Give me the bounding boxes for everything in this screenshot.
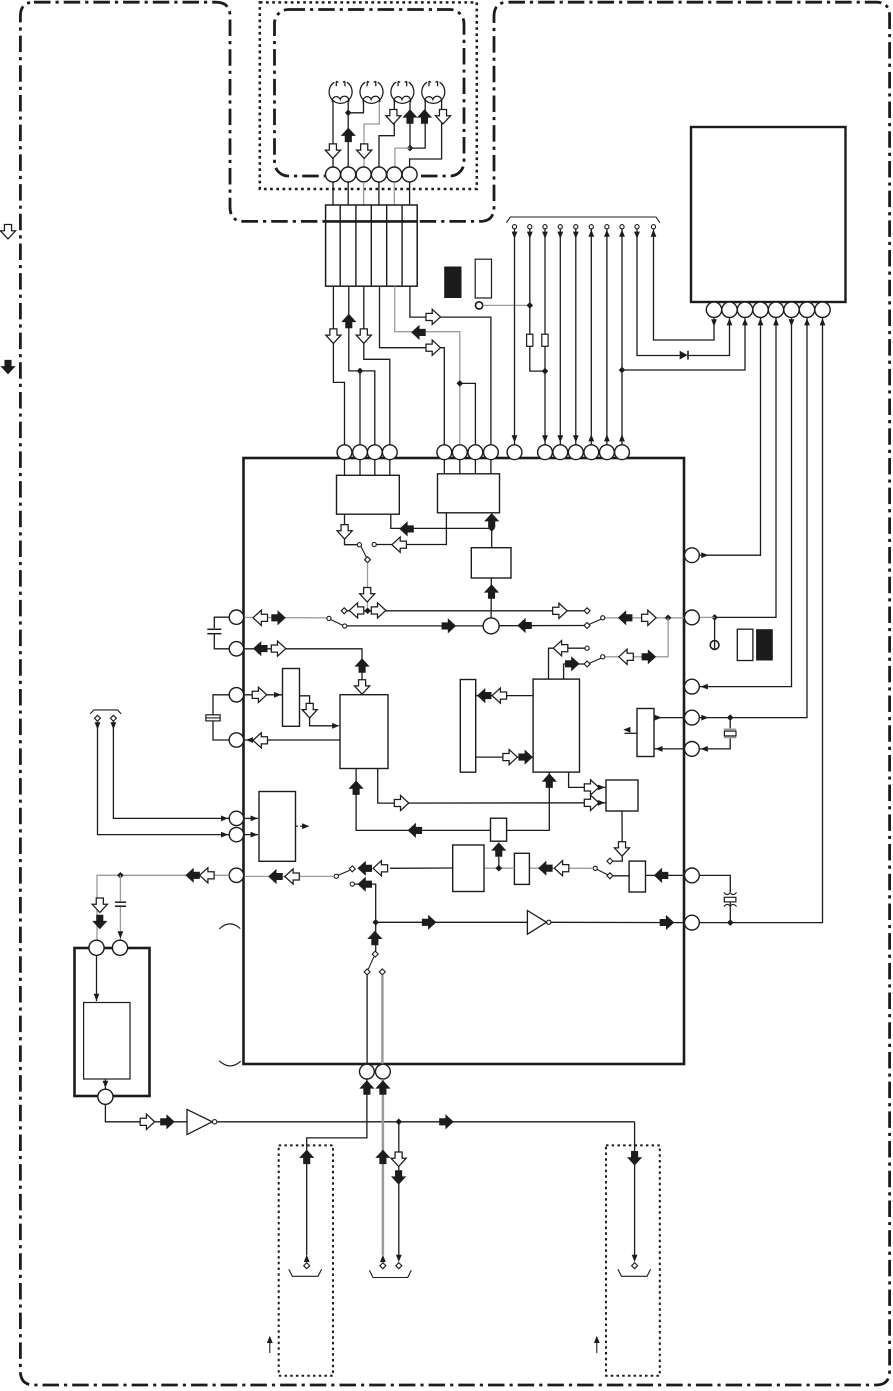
block PB-EQ amp <box>337 475 400 514</box>
arrow solid left into meter amp <box>654 868 669 883</box>
bus terminal 7 <box>605 225 609 229</box>
IC pin T4 <box>382 445 397 460</box>
arrow hollow left S4 row <box>619 649 634 664</box>
arrowhead down sensor a <box>95 722 101 729</box>
wire line row lower left <box>347 625 483 627</box>
pin U2-3 <box>737 302 752 317</box>
arrow record up on head3R wire <box>402 109 417 124</box>
arrow solid right tank lower <box>518 750 533 765</box>
block OSC tank <box>460 680 475 773</box>
system control block U2 <box>691 127 846 302</box>
wire S6b to line out node <box>354 884 375 922</box>
connector J1 divider 3 <box>370 205 372 286</box>
wire inner to bottom pin <box>104 1079 106 1089</box>
arrow hollow left pin L7 inside <box>285 869 300 884</box>
wire IC top pin to block REC-EQ <box>459 459 461 473</box>
arrowhead into level det <box>274 692 281 698</box>
arrow solid right to buffer <box>422 915 437 930</box>
arrow hollow left detector row <box>373 861 388 876</box>
arrowhead up bus 7 top <box>604 230 610 237</box>
arrow solid down solenoid 4 <box>627 1151 642 1166</box>
crystal X1 <box>724 729 736 739</box>
arrow hollow left pin L4 <box>253 733 267 748</box>
wire S5 pole to AGC <box>529 867 593 869</box>
arc mark upper <box>219 924 240 929</box>
arrowhead down into IC pin <box>557 435 563 442</box>
IC pin T12 <box>568 445 583 460</box>
arrow solid down motor wire <box>92 915 107 930</box>
arrow solid left S3 row <box>618 610 633 625</box>
IC pin L6 <box>229 827 243 841</box>
switch S1 lever <box>361 547 366 558</box>
arrowhead up from IC pin <box>604 434 610 441</box>
main IC U1 <box>244 458 685 1064</box>
sensor terminal b <box>110 715 116 721</box>
wire crystal to IC pin R5 <box>699 738 730 749</box>
arrow solid up below pin B1 <box>359 1080 374 1095</box>
IC pin R2 <box>685 610 700 625</box>
terminal solenoid 2 <box>380 1263 386 1269</box>
arrow solid left DolbyHF row <box>408 823 423 838</box>
wire capacitor C1 to pin L2 <box>214 635 229 649</box>
wire motor pin a to inner <box>96 956 98 1002</box>
wire pin L3 to capacitor C2 <box>213 695 229 715</box>
sensor bracket <box>90 710 121 714</box>
arrowhead up solenoid 2 <box>380 1255 386 1262</box>
wire IC pin L5 to control <box>245 817 259 819</box>
wire meter amp to IC pin R6 <box>646 874 685 876</box>
block level det <box>283 669 300 727</box>
arrow solid right pin L1 <box>271 610 286 625</box>
wire S7a to IC bottom pin B1 <box>366 975 368 1064</box>
wire bus 1 to IC <box>514 229 516 445</box>
switch S2 lever <box>331 620 343 626</box>
arrow record up on P2 wire <box>341 128 356 143</box>
arrowhead down into IC pin <box>542 435 548 442</box>
head block dash-dot boundary <box>275 10 465 177</box>
jack circle <box>710 641 719 650</box>
arrowhead into IC pin L4 <box>246 737 253 743</box>
junction motor cap <box>117 872 124 879</box>
arrow playback down monitor wire <box>360 588 375 603</box>
connector J1 divider 1 <box>339 205 341 286</box>
arrow hollow right meter row <box>394 795 409 810</box>
terminal row upper right <box>584 608 590 614</box>
wire tank to bias upper <box>476 695 533 697</box>
pin U2-2 <box>722 302 737 317</box>
arrowhead servo stub <box>623 727 630 733</box>
arrow hollow right row upper <box>553 603 568 618</box>
arrow solid left pin L7 inside <box>268 869 283 884</box>
arrow solid up into bias osc <box>542 773 557 788</box>
arrowhead small right <box>594 1336 600 1343</box>
arrowhead into pin L6 <box>221 832 228 838</box>
wire IC top pin to block PB-EQ <box>359 459 361 475</box>
capacitor C5 <box>724 892 737 906</box>
switch S7 lever <box>368 957 374 969</box>
arrow solid up summer to ALC <box>484 584 499 599</box>
arrowhead down solenoid 3 <box>396 1255 402 1262</box>
wire node to ALC block <box>491 528 493 547</box>
arrowhead into control a <box>251 816 258 822</box>
wire head3-L to pin P4 <box>379 101 394 168</box>
IC pin R4 <box>685 710 700 725</box>
IC pin R3 <box>685 679 700 694</box>
wire diode to U2 pin2 <box>688 318 730 355</box>
wire node to buffer <box>376 921 528 923</box>
arrowhead down inner <box>94 994 100 1001</box>
dashed control stub <box>296 825 306 827</box>
junction monitor row <box>364 608 371 615</box>
buffer amp triangle U1b <box>527 911 546 935</box>
arrow solid right S4b <box>565 656 580 671</box>
junction on bus line 2 <box>527 302 534 309</box>
resistor R1 <box>527 334 533 346</box>
wire capacitor C2 to pin L4 <box>213 721 229 740</box>
arrow solid left detector row <box>358 861 373 876</box>
arrowhead up U2 pin4 <box>758 318 764 325</box>
arrow hollow down left border <box>0 225 15 240</box>
wire node to HF filter <box>498 857 500 868</box>
connector block J1 <box>326 205 418 286</box>
bus terminal 5 <box>574 225 578 229</box>
motor pin b <box>112 940 127 955</box>
arrow solid left into summer <box>517 618 532 633</box>
motor bottom pin <box>98 1089 113 1104</box>
arrow left to switch S1b <box>392 537 407 552</box>
arrow solid left S6b <box>358 877 373 892</box>
wire branch to switch S4 <box>605 618 668 657</box>
bus terminal 6 <box>589 225 593 229</box>
bracket solenoid 4 <box>618 1269 651 1276</box>
arrowhead up U2 pin8 <box>820 318 826 325</box>
IC pin L7 <box>229 868 243 882</box>
junction R2 node <box>711 614 718 621</box>
arrow solid right buffer in <box>160 1114 175 1129</box>
head H3 <box>391 81 414 103</box>
wire lamp to bus line 2 <box>483 304 530 306</box>
arrow record up on head4L wire <box>417 109 432 124</box>
switch S4 contact a <box>585 646 589 650</box>
wire IC pin L3 to level det <box>245 694 283 696</box>
switch S5 contact b <box>607 873 613 879</box>
arrowhead down sensor b <box>111 722 117 729</box>
IC pin T6 <box>452 445 467 460</box>
junction head3R-head4L <box>407 145 414 152</box>
wire IC top pin to block REC-EQ <box>474 459 476 473</box>
terminal row upper left <box>341 608 347 614</box>
wire connector col3 to IC pin T4 <box>364 286 390 445</box>
arrow playback down PB-EQ out <box>337 525 352 540</box>
arrowhead into control b <box>251 832 258 838</box>
arrow solid down left border <box>0 360 15 375</box>
wire level det to MPX <box>300 696 339 726</box>
capacitor C2 <box>206 715 220 721</box>
block MPX filter <box>340 695 388 769</box>
wire MPX to DolbyHF row <box>356 769 490 831</box>
switch S3 pole <box>601 616 605 620</box>
arc mark lower <box>219 1061 241 1066</box>
arrow solid up into HF filter <box>491 842 506 857</box>
wire bus 3 upper <box>544 229 546 334</box>
wire U2 pin8 to IC pin R7 <box>699 318 822 923</box>
IC pin L2 <box>229 642 243 656</box>
pin P1 head connector <box>326 167 341 182</box>
arrow solid up MPX riser <box>355 658 370 673</box>
arrow hollow left at junction <box>349 603 364 618</box>
junction crystal node <box>727 714 734 721</box>
arrow playback down on P1 wire <box>325 144 340 159</box>
arrowhead down U2 pin1 <box>711 319 717 326</box>
wire detector row to switch S6 <box>390 867 453 869</box>
IC pin R7 <box>685 915 700 930</box>
arrowhead right on R4 wire <box>701 715 708 721</box>
wire U2 pin7 to IC pin R4 <box>699 318 807 718</box>
IC pin L3 <box>229 688 243 702</box>
IC pin L5 <box>229 811 243 825</box>
wire pin P1 to connector <box>332 182 334 205</box>
wire pin P2 to connector <box>347 182 349 205</box>
arrowhead left into servo <box>655 746 662 752</box>
arrow hollow left S4a <box>553 641 568 656</box>
terminal solenoid 4 <box>632 1263 638 1269</box>
arrow hollow right pin L3 <box>252 687 267 702</box>
pin P5 head connector <box>387 167 402 182</box>
IC pin T15 <box>615 445 630 460</box>
connector J1 divider 5 <box>401 205 403 286</box>
IC pin R1 <box>685 548 700 563</box>
motor inner block <box>84 1003 130 1080</box>
wire head1-L to pin P1 <box>332 101 334 168</box>
wire U2 pin6 to IC pin R3 <box>699 318 791 687</box>
wire S4b to block BIAS <box>564 664 585 679</box>
arrow hollow right meter row 2 <box>584 795 599 810</box>
arrow solid up to node <box>367 931 382 946</box>
wire bias to meter drive <box>569 772 606 787</box>
arrow hollow left motor row <box>200 868 215 883</box>
buffer T1 output terminal <box>212 1120 216 1124</box>
wire to crystal <box>729 718 731 729</box>
arrow playback down col3 <box>356 329 371 344</box>
arrowhead right servo out <box>655 715 662 721</box>
wire bus 5 to IC <box>575 229 577 445</box>
arrow hollow down meter out <box>614 842 629 857</box>
IC pin T2 <box>353 445 368 460</box>
connector J1 divider 2 <box>355 205 357 286</box>
IC pin T8 <box>484 445 499 460</box>
wire AGC to detector <box>484 867 514 869</box>
arrow hollow right bias out <box>584 780 599 795</box>
indicator black bar <box>444 267 461 299</box>
diode D1 <box>680 351 688 360</box>
arrowhead up U2 pin2 <box>727 318 733 325</box>
arrow hollow right pin L2 <box>271 641 286 656</box>
IC pin T7 <box>468 445 483 460</box>
wire S5b to meter amp <box>612 875 629 877</box>
pin P3 head connector <box>356 167 371 182</box>
wire node to switch S7 <box>375 922 377 951</box>
arrow right col4 <box>426 340 441 355</box>
arrow solid left motor row <box>185 868 200 883</box>
bracket solenoid 1 <box>289 1269 322 1276</box>
wire cap to junction <box>729 902 731 923</box>
wire bus 9 to diode <box>637 229 680 356</box>
arrowhead down solenoid 4 <box>632 1255 638 1262</box>
arrow solid right into pin R7 <box>660 915 675 930</box>
arrow hollow down level det <box>302 703 317 718</box>
arrowhead up U2 pin7 <box>804 318 810 325</box>
summing circle <box>483 618 499 634</box>
wire IC pin R5 to servo <box>654 748 685 750</box>
wire S7b to IC bottom pin B2 <box>381 975 384 1064</box>
pin U2-7 <box>799 302 814 317</box>
arrow solid up below pin B2 <box>375 1080 390 1095</box>
junction R2 branch <box>665 615 672 622</box>
wire U2 pin4 to IC pin R1 <box>699 318 760 556</box>
bus connector bracket <box>506 217 659 223</box>
switch S2 pole <box>327 616 331 620</box>
IC pin T13 <box>584 445 599 460</box>
wire connector col2 to IC pin T3 <box>349 286 375 445</box>
wire IC pin L7 row <box>245 875 335 877</box>
IC pin T1 <box>337 445 352 460</box>
IC pin L4 <box>229 733 243 747</box>
block AGC <box>514 853 529 884</box>
arrow hollow left pin L1 <box>253 610 267 625</box>
block HF filter <box>491 818 507 841</box>
arrow hollow left AGC row <box>554 861 569 876</box>
solenoid dotted box left <box>279 1145 333 1375</box>
wire S1 pole to monitor junction <box>367 563 369 608</box>
wire IC pin L7 to motor <box>97 875 229 940</box>
switch S6 contact a <box>349 866 355 872</box>
switch S7 contact b <box>379 969 385 975</box>
wire bus 3 lower to IC <box>544 346 546 445</box>
arrow solid left pin L2 <box>253 641 267 656</box>
junction head1R-head2L <box>345 110 352 117</box>
switch S7 contact a <box>364 969 370 975</box>
arrowhead down bus 2 top <box>527 232 533 239</box>
IC pin R6 <box>685 868 700 883</box>
switch S6 contact b <box>350 882 354 886</box>
wire bus 7 to IC <box>606 229 608 445</box>
arrow playback down on head4R wire <box>435 110 450 125</box>
block BIAS OSC <box>533 679 579 772</box>
arrow record left col5 <box>411 325 426 340</box>
arrow solid right long line <box>439 1114 454 1129</box>
arrowhead up bus 8 top <box>619 230 625 237</box>
wire small arrow right <box>596 1341 598 1353</box>
motor block M1 <box>75 948 150 1096</box>
IC pin T9 <box>507 445 522 460</box>
wire head1-R to pin P2 <box>347 101 349 168</box>
arrow hollow right S3 row <box>642 610 657 625</box>
arrowhead left into IC pin R5 <box>701 746 708 752</box>
arrow solid up solenoid 1 <box>299 1150 314 1165</box>
arrowhead down to bottom pin <box>103 1081 109 1088</box>
arrow solid left tank upper <box>477 688 492 703</box>
arrow record up col2 <box>341 314 356 329</box>
arrow hollow right buffer in <box>140 1114 155 1129</box>
arrow solid right into summer <box>442 618 457 633</box>
pin U2-1 <box>706 302 721 317</box>
pin P4 head connector <box>371 167 386 182</box>
wire servo to IC pin R4 <box>654 717 685 719</box>
IC pin L1 <box>229 610 243 624</box>
border segment across connector <box>326 220 418 223</box>
junction ALC node <box>488 525 495 532</box>
wire bus 6 to IC <box>590 229 592 445</box>
wire summer to ALC <box>490 578 492 618</box>
wire pin L1 to capacitor C1 <box>214 617 229 628</box>
terminal row lower right <box>584 623 590 629</box>
wire IC pin L4 to MPX <box>245 739 341 741</box>
arrowhead down U2 pin6 <box>789 319 795 326</box>
arrowhead up solenoid 1 <box>304 1255 310 1262</box>
block detector <box>453 845 484 892</box>
solenoid dotted box right <box>606 1145 660 1375</box>
motor pin a <box>89 940 104 955</box>
sensor lamp circle <box>476 302 483 309</box>
head H4 <box>422 81 445 103</box>
wire small arrow left <box>269 1341 271 1353</box>
arrow record up into REC-EQ <box>484 513 499 528</box>
buffer output terminal <box>547 920 551 924</box>
wire U2 pin5 to junction <box>718 318 776 618</box>
arrow hollow down solenoid 3 <box>391 1152 406 1167</box>
bus terminal 10 <box>651 225 655 229</box>
junction col5 branch <box>457 380 464 387</box>
junction line out node <box>372 919 379 926</box>
IC pin T14 <box>600 445 615 460</box>
bracket solenoid 2-3 <box>369 1270 411 1277</box>
terminal row lower left <box>343 624 347 628</box>
wire branch to IC pin T7 <box>460 383 476 445</box>
wire tank to bias lower <box>476 756 533 758</box>
junction AGC node <box>496 865 503 872</box>
wire IC pin R6 to cap <box>699 875 730 892</box>
resistor R2 <box>542 334 548 346</box>
terminal solenoid 1 <box>304 1263 310 1269</box>
switch S5 pole <box>593 866 597 870</box>
switch S4 pole <box>601 655 605 659</box>
wire sensor a to IC pin L6 <box>98 721 230 834</box>
wire servo stub <box>625 732 638 734</box>
arrowhead up bus 6 top <box>588 230 594 237</box>
block REC-EQ amp <box>438 474 500 513</box>
wire IC pin B2 to solenoid 2 <box>382 1079 385 1255</box>
IC pin T11 <box>553 445 568 460</box>
switch S4 contact b <box>584 661 590 667</box>
arrowhead right on R1 wire <box>701 552 708 558</box>
indicator white bar 2 <box>737 629 753 660</box>
pin U2-5 <box>768 302 783 317</box>
wire junction to IC pin R2 <box>699 616 714 618</box>
junction bus 8 branch <box>619 367 626 374</box>
arrow playback down on P3 wire <box>357 144 372 159</box>
wire REC line to ALC node <box>391 514 492 528</box>
switch S1 pole <box>365 557 371 563</box>
wire bus 4 to IC <box>559 229 561 445</box>
switch S7 pole <box>372 951 378 957</box>
wire capacitor C3 to motor pin <box>119 907 121 940</box>
cassette mechanism dotted boundary <box>260 2 477 189</box>
bus terminal 9 <box>635 225 639 229</box>
wire S4a to block BIAS <box>549 648 586 679</box>
wire sensor b to IC pin L5 <box>113 721 229 818</box>
junction bus2-bus3 <box>542 368 549 375</box>
wire IC top pin to block PB-EQ <box>389 459 391 475</box>
